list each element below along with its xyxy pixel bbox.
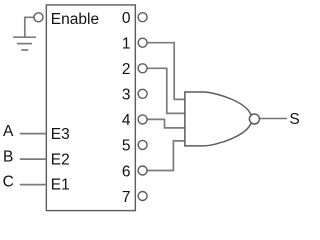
bubble output 5 <box>138 140 147 149</box>
wire output4 to gate input 3 <box>147 119 185 128</box>
wire: enable to ground <box>25 17 34 36</box>
bubble: Enable input (active low) <box>34 13 43 22</box>
svg-text:A: A <box>3 123 14 140</box>
svg-text:7: 7 <box>122 189 131 206</box>
svg-text:1: 1 <box>122 36 131 53</box>
bubble output 4 <box>138 115 147 124</box>
wire nand output to S <box>260 118 287 120</box>
svg-text:E2: E2 <box>51 151 70 168</box>
wire output6 to gate input 4 <box>147 141 185 171</box>
svg-text:E1: E1 <box>51 177 70 194</box>
wire output2 to gate input 2 <box>147 68 185 113</box>
bubble output 7 <box>138 192 147 201</box>
svg-text:6: 6 <box>122 163 131 180</box>
svg-text:2: 2 <box>122 61 131 78</box>
svg-text:B: B <box>3 148 13 165</box>
svg-text:5: 5 <box>122 138 131 155</box>
bubble output 0 <box>138 13 147 22</box>
ground <box>13 37 36 50</box>
svg-text:Enable: Enable <box>51 11 99 28</box>
decoder U1 (3-to-8 decoder block) <box>46 5 135 211</box>
bubble output 1 <box>138 38 147 47</box>
bubble output 6 <box>138 166 147 175</box>
svg-text:0: 0 <box>122 10 131 27</box>
svg-text:C: C <box>3 174 14 191</box>
wire B to E2 <box>20 158 47 160</box>
svg-text:4: 4 <box>122 112 131 129</box>
nand gate U2 <box>185 92 252 146</box>
bubble output 2 <box>138 64 147 73</box>
svg-text:E3: E3 <box>51 126 70 143</box>
bubble nand output <box>249 114 259 124</box>
output labels 0-7 <box>122 10 131 206</box>
wire C to E1 <box>20 184 47 186</box>
svg-text:S: S <box>289 111 299 128</box>
wire output1 to gate input 1 <box>147 43 185 100</box>
svg-text:3: 3 <box>122 87 131 104</box>
bubble output 3 <box>138 89 147 98</box>
wire A to E3 <box>20 133 47 135</box>
